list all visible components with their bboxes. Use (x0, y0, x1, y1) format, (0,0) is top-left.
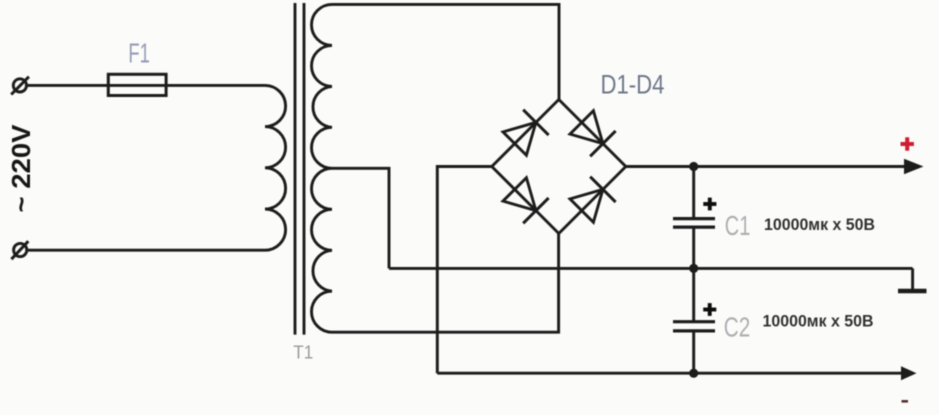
svg-text:T1: T1 (293, 342, 313, 362)
diode D1 (top-left) (503, 110, 549, 156)
fuse F1 (108, 74, 166, 95)
diode D2 (top-right) (570, 111, 616, 157)
transformer T1 primary winding (265, 85, 286, 250)
wire: secondary top to bridge top (332, 4, 559, 99)
capacitor C1 (673, 167, 715, 269)
ground symbol (898, 268, 927, 291)
terminal X2 (bottom input) (11, 241, 28, 259)
wire: top terminal to fuse to primary (27, 84, 266, 87)
svg-text:10000мк x 50В: 10000мк x 50В (763, 313, 874, 331)
label minus (red) (902, 400, 909, 403)
diode D3 (bottom-left) (503, 178, 549, 224)
C2 polarity plus (703, 303, 716, 316)
svg-text:D1-D4: D1-D4 (601, 70, 665, 100)
bridge rectifier diamond (492, 100, 626, 234)
wire: bridge minus to bottom rail (437, 167, 492, 374)
node: bottom rail / C2 junction (689, 369, 698, 378)
capacitor C2 (673, 268, 715, 373)
arrow plus output (904, 159, 924, 174)
svg-text:10000мк x 50В: 10000мк x 50В (764, 216, 875, 234)
node: plus rail / C1 junction (689, 162, 698, 171)
wire: bottom minus rail (437, 372, 906, 375)
transformer T1 secondary winding (312, 4, 333, 332)
svg-text:C1: C1 (725, 210, 751, 241)
wire: bottom terminal to primary (27, 249, 265, 252)
svg-text:~ 220V: ~ 220V (6, 124, 36, 213)
wire: secondary center tap to middle rail (332, 168, 389, 268)
label plus (red) (901, 137, 914, 150)
diode D4 (bottom-right) (570, 177, 616, 223)
terminal X1 (top input) (11, 77, 29, 95)
wire: bridge plus to plus rail (626, 165, 908, 168)
svg-text:F1: F1 (128, 38, 150, 69)
C1 polarity plus (703, 198, 716, 211)
wire: secondary bottom to bridge bottom (332, 234, 559, 333)
arrow minus output (901, 366, 917, 380)
svg-text:C2: C2 (724, 312, 751, 343)
node: middle rail / C1-C2 junction (689, 264, 698, 273)
transformer T1 core (295, 3, 304, 335)
wire: middle (ground) rail (389, 267, 913, 270)
